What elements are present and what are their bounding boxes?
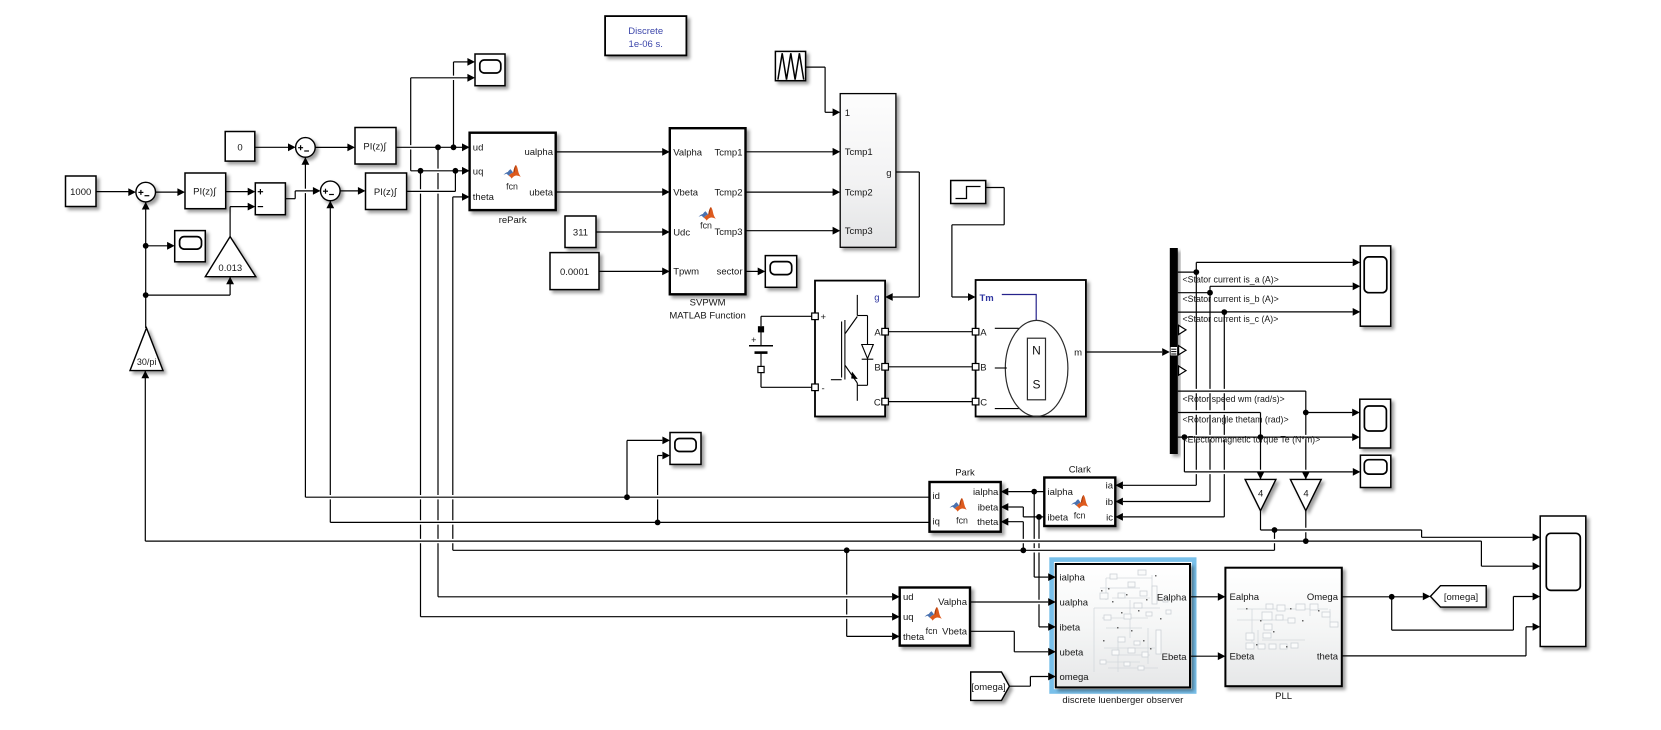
wire Clark ia horizontal — [1123, 484, 1196, 486]
wire scope id horizontal — [627, 439, 662, 441]
svg-text:discrete luenberger observer: discrete luenberger observer — [1062, 695, 1183, 706]
MATLAB function block rePark — [470, 133, 556, 210]
PLL faint inner diagram — [1237, 608, 1328, 610]
wire d-sum to PI d-axis — [315, 146, 349, 148]
svg-text:sector: sector — [717, 267, 743, 278]
svg-text:C: C — [980, 397, 987, 408]
constant block 0.0001 — [550, 253, 599, 290]
wire PI q-axis output horizontal — [412, 189, 451, 193]
wire scope iq horizontal — [658, 455, 663, 457]
wire ud bottom horizontal to anti-Park — [444, 595, 884, 599]
wire inverter C to motor — [888, 401, 972, 403]
wire gain4 speed output vertical — [1305, 511, 1307, 541]
svg-text:fcn: fcn — [1074, 510, 1086, 520]
inverter IGBT diode icon — [856, 295, 858, 316]
wire torque to torque scope — [1190, 470, 1346, 474]
svg-text:theta: theta — [1317, 651, 1339, 662]
svg-text:311: 311 — [573, 228, 588, 239]
gain 30/pi — [130, 328, 163, 371]
svg-text:A: A — [874, 327, 881, 338]
svg-text:fcn: fcn — [926, 626, 938, 636]
wire 0 constant to d-sum — [255, 146, 290, 148]
wire bus thetam output — [1183, 410, 1254, 414]
svg-text:ialpha: ialpha — [1048, 487, 1074, 498]
svg-text:Valpha: Valpha — [938, 597, 968, 608]
svg-text:0: 0 — [237, 142, 242, 153]
svg-text:Valpha: Valpha — [673, 147, 703, 158]
step block — [951, 181, 986, 204]
wire q-sum to PI q-axis — [340, 190, 360, 192]
svg-text:ic: ic — [1106, 512, 1113, 523]
wire uq riser from PI q-axis — [454, 171, 456, 192]
svg-text:ialpha: ialpha — [973, 487, 999, 498]
svg-text:ubeta: ubeta — [1060, 647, 1084, 658]
wire omega from-tag riser — [1029, 677, 1031, 687]
svg-text:-: - — [822, 383, 825, 394]
bus selector unconnected output chevrons — [1179, 325, 1186, 334]
svg-text:30/pi: 30/pi — [137, 357, 157, 367]
wire rePark ualpha to SVPWM — [556, 151, 664, 153]
svg-text:1e-06 s.: 1e-06 s. — [629, 39, 663, 50]
svg-text:Udc: Udc — [673, 227, 690, 238]
wire theta to anti-Park horizontal — [847, 635, 892, 637]
wire uq bottom horizontal to anti-Park — [427, 615, 885, 619]
wire uq vertical down to anti-Park — [420, 171, 422, 617]
wire SVPWM Tcmp3 out — [746, 230, 835, 232]
wire line B to big scope — [1481, 565, 1532, 567]
wire g signal vertical — [918, 172, 920, 297]
wire line C electrical theta — [459, 548, 1269, 552]
svg-text:Ealpha: Ealpha — [1230, 592, 1260, 603]
wire battery minus to inverter — [761, 386, 812, 388]
svg-text:PI(z)∫: PI(z)∫ — [193, 187, 217, 198]
wire observer Ealpha to PLL — [1190, 596, 1218, 598]
wire iq line — [336, 520, 923, 524]
wire line B electrical speed — [151, 539, 1475, 543]
observer faint inner diagram — [1106, 577, 1152, 579]
PMSM motor icon — [1002, 295, 1036, 321]
MATLAB function block Clark (mirrored) — [1044, 478, 1115, 527]
wire uq tap vertical to scope — [410, 78, 412, 171]
wire 30/pi input vertical from line B — [144, 371, 146, 541]
wire ud tap to scope horizontal — [454, 61, 470, 63]
svg-text:B: B — [980, 363, 986, 374]
wire SVPWM Tcmp1 out — [746, 151, 835, 153]
svg-text:<Stator current is_a (A)>: <Stator current is_a (A)> — [1183, 275, 1279, 285]
wire 1000 to speed sum — [96, 191, 130, 193]
repeating sequence block (triangle wave) — [775, 51, 805, 80]
wire ib drop vertical — [1209, 293, 1211, 502]
wire omega tag to observer horizontals — [1009, 685, 1030, 687]
svg-text:ualpha: ualpha — [524, 147, 553, 158]
svg-text:N: N — [1032, 344, 1041, 358]
wire uq tap to scope horizontal — [416, 76, 468, 80]
svg-text:ud: ud — [473, 143, 484, 154]
wire Vbeta jog vertical — [1013, 631, 1015, 652]
wire line A electrical theta to scope — [1266, 528, 1416, 532]
wire add output jog — [285, 198, 295, 200]
svg-text:ia: ia — [1106, 481, 1114, 492]
svg-text:+: + — [751, 335, 756, 345]
svg-text:Tcmp3: Tcmp3 — [715, 227, 743, 238]
svg-text:PLL: PLL — [1275, 691, 1292, 702]
svg-text:<Stator current is_b (A)>: <Stator current is_b (A)> — [1183, 294, 1279, 304]
junction dots — [435, 144, 441, 150]
wire gain 0.013 to add minus — [230, 206, 249, 208]
svg-text:ubeta: ubeta — [529, 187, 553, 198]
svg-text:id: id — [933, 491, 940, 502]
DC voltage source battery — [760, 332, 762, 345]
svg-text:A: A — [980, 327, 987, 338]
wire theta into rePark horizontal — [453, 196, 464, 198]
wire bus is_b to scope — [1209, 286, 1211, 292]
svg-text:SVPWM: SVPWM — [690, 298, 726, 309]
svg-text:1: 1 — [845, 108, 850, 119]
svg-text:Tcmp2: Tcmp2 — [845, 188, 873, 199]
svg-text:ualpha: ualpha — [1060, 598, 1089, 609]
svg-text:<Rotor angle thetam (rad)>: <Rotor angle thetam (rad)> — [1183, 414, 1289, 424]
wire observer ibeta horizontal — [1039, 626, 1048, 628]
svg-text:Tpwm: Tpwm — [673, 267, 699, 278]
wire ud PI output to rePark — [402, 145, 460, 149]
svg-text:Park: Park — [955, 468, 975, 479]
svg-text:omega: omega — [1060, 672, 1090, 683]
svg-text:B: B — [874, 363, 880, 374]
PMSM motor block — [976, 280, 1086, 417]
arrowheads — [128, 188, 136, 196]
port squares inverter and motor — [812, 313, 819, 320]
wire Clark ialpha to Park — [1008, 491, 1044, 493]
MATLAB function block anti-Park (ud uq theta to Valpha Vbeta) — [900, 588, 970, 646]
svg-text:ibeta: ibeta — [978, 502, 999, 513]
wire id feedback vertical to d-sum — [304, 157, 306, 497]
svg-text:<Rotor speed wm (rad/s)>: <Rotor speed wm (rad/s)> — [1183, 394, 1285, 404]
svg-text:g: g — [886, 168, 891, 179]
svg-text:0.0001: 0.0001 — [560, 267, 589, 278]
svg-text:Vbeta: Vbeta — [942, 627, 968, 638]
wire SVPWM sector to scope — [746, 270, 760, 272]
svg-text:rePark: rePark — [499, 215, 527, 226]
wire theta into Park horizontal — [1001, 521, 1024, 523]
svg-text:uq: uq — [903, 612, 914, 623]
wire Clark ibeta to Park horizontals — [1023, 516, 1044, 518]
wire wm branch to scope — [1306, 412, 1352, 414]
comparison subsystem block (gray, Tcmp to g) — [840, 94, 896, 248]
svg-text:g: g — [874, 293, 879, 304]
wire ic drop vertical — [1223, 312, 1225, 517]
inverter block (universal bridge) — [815, 281, 885, 417]
wire gain 0.013 output vertical — [229, 207, 231, 237]
wire Clark ibeta jog vertical — [1022, 507, 1024, 517]
svg-text:Tcmp1: Tcmp1 — [715, 147, 743, 158]
wire g output horizontals — [896, 171, 919, 173]
wire theta tap vertical to anti-Park — [846, 550, 848, 636]
svg-text:uq: uq — [473, 166, 484, 177]
svg-text:4: 4 — [1303, 489, 1308, 500]
gain 4 block 1 (pole pairs theta) — [1245, 479, 1276, 510]
wire PLL theta to big scope — [1342, 655, 1526, 657]
svg-text:fcn: fcn — [700, 221, 712, 231]
wire Clark ic horizontal — [1123, 516, 1224, 518]
From tag [omega] — [971, 672, 1010, 700]
wire ialpha vertical to observer — [1033, 492, 1035, 577]
svg-text:fcn: fcn — [956, 516, 968, 526]
wire line C to line A riser — [1274, 530, 1276, 550]
wire thetam drop vertical to gain 4 — [1260, 413, 1262, 480]
wire gain4 theta output vertical — [1260, 511, 1262, 530]
subsystem PLL — [1225, 568, 1341, 687]
constant block 0 — [225, 132, 255, 162]
PI controller PI(z) speed loop — [185, 173, 226, 209]
constant block 1000 — [66, 176, 97, 207]
wire inverter B to motor — [888, 366, 972, 368]
wire step output horizontals — [986, 187, 1005, 189]
MATLAB function block Park (mirrored) — [930, 482, 1001, 532]
sum block d-axis (+-) — [296, 138, 316, 158]
wire repeating sequence horizontals — [806, 66, 826, 68]
wire speed feedback vertical — [145, 202, 147, 328]
svg-text:Tcmp2: Tcmp2 — [715, 187, 743, 198]
svg-text:Ealpha: Ealpha — [1157, 592, 1187, 603]
wire speed sum to PI — [156, 191, 180, 193]
wire battery plus to inverter — [761, 315, 812, 317]
svg-text:Tcmp1: Tcmp1 — [845, 147, 873, 158]
annotation Discrete 1e-06 s. — [605, 16, 686, 55]
svg-text:ialpha: ialpha — [1060, 573, 1086, 584]
svg-text:<Electromagnetic torque Te (N*: <Electromagnetic torque Te (N*m)> — [1183, 435, 1321, 445]
gain 4 block 2 (pole pairs speed) — [1290, 479, 1321, 510]
svg-text:Ebeta: Ebeta — [1230, 651, 1256, 662]
svg-text:ibeta: ibeta — [1048, 512, 1069, 523]
wire bus torque output — [1190, 435, 1346, 439]
svg-text:0.013: 0.013 — [218, 263, 242, 274]
svg-text:theta: theta — [977, 517, 999, 528]
Goto tag [omega] — [1430, 586, 1486, 607]
svg-text:iq: iq — [933, 517, 940, 528]
svg-text:[omega]: [omega] — [971, 682, 1005, 693]
svg-text:PI(z)∫: PI(z)∫ — [374, 187, 398, 198]
wire Vbeta to observer ubeta horizontals — [970, 630, 1014, 632]
wire bus is_b stub — [1178, 292, 1210, 294]
wire iq feedback vertical to q-sum — [329, 201, 331, 523]
svg-text:4: 4 — [1258, 489, 1263, 500]
wire uq horizontal into rePark — [415, 169, 450, 173]
wire SVPWM Tcmp2 out — [746, 191, 835, 193]
wire Valpha to observer ualpha — [976, 600, 1047, 604]
wire omega branch vertical — [1391, 597, 1393, 630]
svg-text:Discrete: Discrete — [628, 26, 663, 37]
wire omega branch horizontals — [1392, 629, 1514, 631]
wire theta scope riser — [1525, 627, 1527, 656]
PI controller PI(z) q-axis — [366, 173, 407, 210]
svg-text:m: m — [1074, 348, 1082, 359]
wire ud tap vertical to scope — [453, 62, 455, 147]
gain 0.013 — [205, 237, 256, 277]
wire repeating sequence vertical — [824, 67, 826, 112]
wire id line — [311, 495, 923, 499]
wire theta riser vertical to rePark — [452, 197, 454, 550]
svg-text:PI(z)∫: PI(z)∫ — [363, 142, 387, 153]
svg-text:ud: ud — [903, 592, 914, 603]
svg-text:Omega: Omega — [1307, 592, 1339, 603]
wire observer Ebeta to PLL — [1190, 655, 1218, 657]
wire speed feedback to scope branch — [146, 245, 169, 247]
wire 0.0001 to SVPWM Tpwm — [599, 270, 664, 272]
wire scope iq riser — [657, 456, 659, 523]
svg-text:Vbeta: Vbeta — [673, 187, 699, 198]
wire ia drop vertical — [1195, 272, 1197, 485]
wire motor m to bus selector — [1086, 351, 1162, 353]
wire inverter A to motor — [888, 331, 972, 333]
svg-text:Clark: Clark — [1069, 464, 1091, 475]
wire omega scope riser — [1512, 597, 1514, 631]
svg-text:Tm: Tm — [980, 293, 994, 304]
svg-text:ibeta: ibeta — [1060, 622, 1081, 633]
wire PI speed to add block — [226, 191, 250, 193]
wire scope id riser — [626, 440, 628, 497]
svg-text:S: S — [1032, 378, 1040, 392]
svg-text:ib: ib — [1106, 497, 1113, 508]
wire bus is_c to scope — [1178, 311, 1225, 313]
wire Clark ib horizontal — [1123, 501, 1210, 503]
constant block 311 — [565, 216, 596, 248]
wire line A jog vertical — [1421, 530, 1423, 537]
subsystem discrete luenberger observer (selected) — [1052, 560, 1195, 692]
svg-text:Ebeta: Ebeta — [1162, 652, 1188, 663]
MATLAB function block SVPWM — [670, 128, 746, 294]
wire wm drop vertical to gain 4 — [1305, 391, 1307, 479]
wire line B jog vertical — [1480, 541, 1482, 566]
wire torque scope branch vertical — [1183, 437, 1185, 472]
svg-text:MATLAB Function: MATLAB Function — [669, 311, 745, 322]
wire ibeta vertical to observer — [1038, 517, 1040, 627]
svg-text:[omega]: [omega] — [1444, 592, 1478, 603]
wire rePark ubeta to SVPWM — [556, 191, 664, 193]
svg-text:<Stator current is_c (A)>: <Stator current is_c (A)> — [1183, 314, 1279, 324]
svg-text:+: + — [821, 312, 827, 323]
svg-text:theta: theta — [903, 632, 925, 643]
sum block speed error (+-) — [136, 182, 156, 202]
wire step Tm vertical segments — [1003, 188, 1005, 225]
wire ud vertical down to anti-Park — [437, 147, 439, 597]
wire bus is_a stub — [1178, 271, 1197, 273]
wire theta tap vertical to Park — [1022, 522, 1024, 551]
wire bus wm output — [1183, 389, 1300, 393]
bus selector bar — [1170, 248, 1178, 454]
PI controller PI(z) d-axis — [355, 128, 396, 165]
svg-text:theta: theta — [473, 192, 495, 203]
svg-text:fcn: fcn — [506, 182, 518, 192]
wire bus is_a to scope — [1195, 262, 1197, 272]
add subtract block — [255, 183, 285, 215]
wire PLL Omega to goto tag — [1342, 596, 1423, 598]
svg-text:C: C — [874, 397, 881, 408]
wire 311 to SVPWM Udc — [596, 231, 664, 233]
wire observer ialpha horizontal — [1034, 576, 1048, 578]
svg-text:Tcmp3: Tcmp3 — [845, 226, 873, 237]
svg-text:1000: 1000 — [70, 187, 91, 198]
sum block q-axis (+-) — [321, 181, 341, 201]
wire speed feedback to gain 0.013 branch — [146, 294, 230, 296]
